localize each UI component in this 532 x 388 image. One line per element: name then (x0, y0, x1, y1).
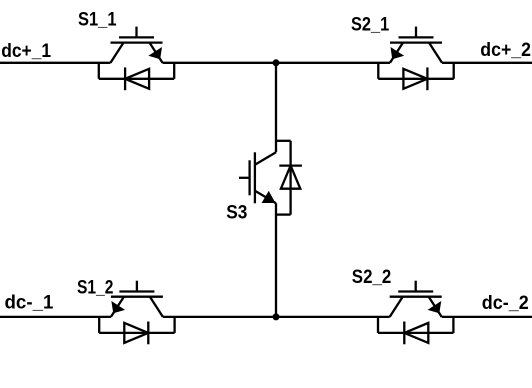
transistor S1_2: left terminal diagonal (111, 297, 124, 317)
diode loop of S2_2: bottom wire (378, 332, 453, 334)
svg-text:S2_2: S2_2 (352, 267, 392, 288)
transistor S2_2: right terminal diagonal (429, 297, 442, 317)
transistor S1_2: gate lead (136, 281, 138, 292)
svg-text:dc-_2: dc-_2 (482, 293, 529, 314)
diode of S1_1: triangle (125, 69, 149, 89)
transistor S2_1: collector-emitter bar (390, 41, 442, 43)
transistor S2_1: gate bar (399, 36, 434, 38)
wire: top rail middle segment (163, 62, 391, 64)
diode loop of S2_1: right vertical wire (453, 63, 455, 79)
transistor S3: gate bar (248, 160, 250, 195)
transistor S3: emitter arrowhead (264, 193, 274, 202)
transistor S1_1: right terminal diagonal (150, 43, 163, 63)
transistor S1_2: collector-emitter bar (111, 296, 163, 298)
transistor S2_2: left terminal diagonal (390, 297, 403, 317)
diode loop of S1_2: right vertical wire (173, 317, 175, 333)
diode loop of S3: top wire (276, 140, 291, 142)
transistor S3: gate lead (239, 177, 250, 179)
svg-text:S1_2: S1_2 (77, 278, 113, 299)
diode of S2_2: cathode bar (403, 322, 405, 345)
svg-text:S3: S3 (226, 203, 247, 224)
transistor S3: collector-emitter bar (254, 152, 256, 203)
diode of S1_2: cathode bar (147, 322, 149, 345)
transistor S2_2: gate lead (415, 281, 417, 292)
transistor S2_2: collector-emitter bar (390, 296, 442, 298)
transistor S1_1: left terminal diagonal (111, 43, 124, 63)
transistor S1_1: emitter arrowhead (151, 49, 160, 58)
transistor S2_1: gate lead (415, 27, 417, 38)
wire: top rail right segment (dc+_2) (442, 62, 532, 64)
transistor S1_2: gate bar (119, 290, 154, 292)
transistor S2_1: emitter arrowhead (392, 49, 401, 58)
transistor S2_1: right terminal diagonal (429, 43, 442, 63)
wire: center vertical lower (S3 emitter to bottom rail) (275, 203, 277, 317)
transistor S3: emitter diagonal (255, 191, 276, 204)
diode of S1_1: cathode bar (124, 67, 126, 90)
transistor S1_2: right terminal diagonal (150, 297, 163, 317)
diode of S2_1: triangle (403, 69, 427, 89)
diode loop of S1_1: left vertical wire (98, 63, 100, 79)
wire: bottom rail left segment (dc-_1) (0, 316, 111, 318)
svg-text:dc-_1: dc-_1 (5, 292, 54, 313)
transistor S1_1: gate bar (119, 36, 154, 38)
junction dot on top rail (273, 60, 279, 66)
diode loop of S1_2: bottom wire (99, 332, 174, 334)
transistor S2_2: emitter arrowhead (430, 303, 439, 311)
diode loop of S3: bottom wire (276, 213, 291, 215)
transistor S1_1: collector-emitter bar (111, 41, 163, 43)
diode of S3: cathode bar (279, 164, 302, 166)
wire: bottom rail right segment (dc-_2) (442, 316, 532, 318)
diode loop of S1_1: bottom wire (99, 78, 174, 80)
diode loop of S2_2: right vertical wire (452, 317, 454, 333)
diode loop of S1_1: right vertical wire (173, 63, 175, 79)
wire: top rail left segment (dc+_1) (0, 62, 111, 64)
diode loop of S2_1: bottom wire (378, 78, 453, 80)
svg-text:dc+_2: dc+_2 (480, 40, 531, 61)
svg-text:S2_1: S2_1 (351, 14, 390, 35)
diode of S2_1: cathode bar (426, 67, 428, 90)
diode loop of S2_1: left vertical wire (377, 63, 379, 79)
diode of S2_2: triangle (404, 323, 428, 343)
transistor S2_1: left terminal diagonal (390, 43, 403, 63)
diode loop of S3: right vertical wire (289, 141, 291, 215)
diode of S3: triangle (281, 166, 300, 189)
diode loop of S1_2: left vertical wire (98, 317, 100, 333)
svg-text:S1_1: S1_1 (78, 9, 117, 30)
transistor S1_2: emitter arrowhead (113, 303, 122, 311)
wire: bottom rail middle segment (163, 316, 390, 318)
diode loop of S2_2: left vertical wire (377, 317, 379, 333)
junction dot on bottom rail (273, 314, 279, 320)
svg-text:dc+_1: dc+_1 (1, 41, 51, 62)
transistor S2_2: gate bar (398, 290, 433, 292)
transistor S3: collector diagonal (255, 152, 276, 165)
wire: center vertical upper (top rail to S3 collector) (275, 63, 277, 153)
diode of S1_2: triangle (124, 323, 148, 343)
transistor S1_1: gate lead (135, 27, 137, 38)
